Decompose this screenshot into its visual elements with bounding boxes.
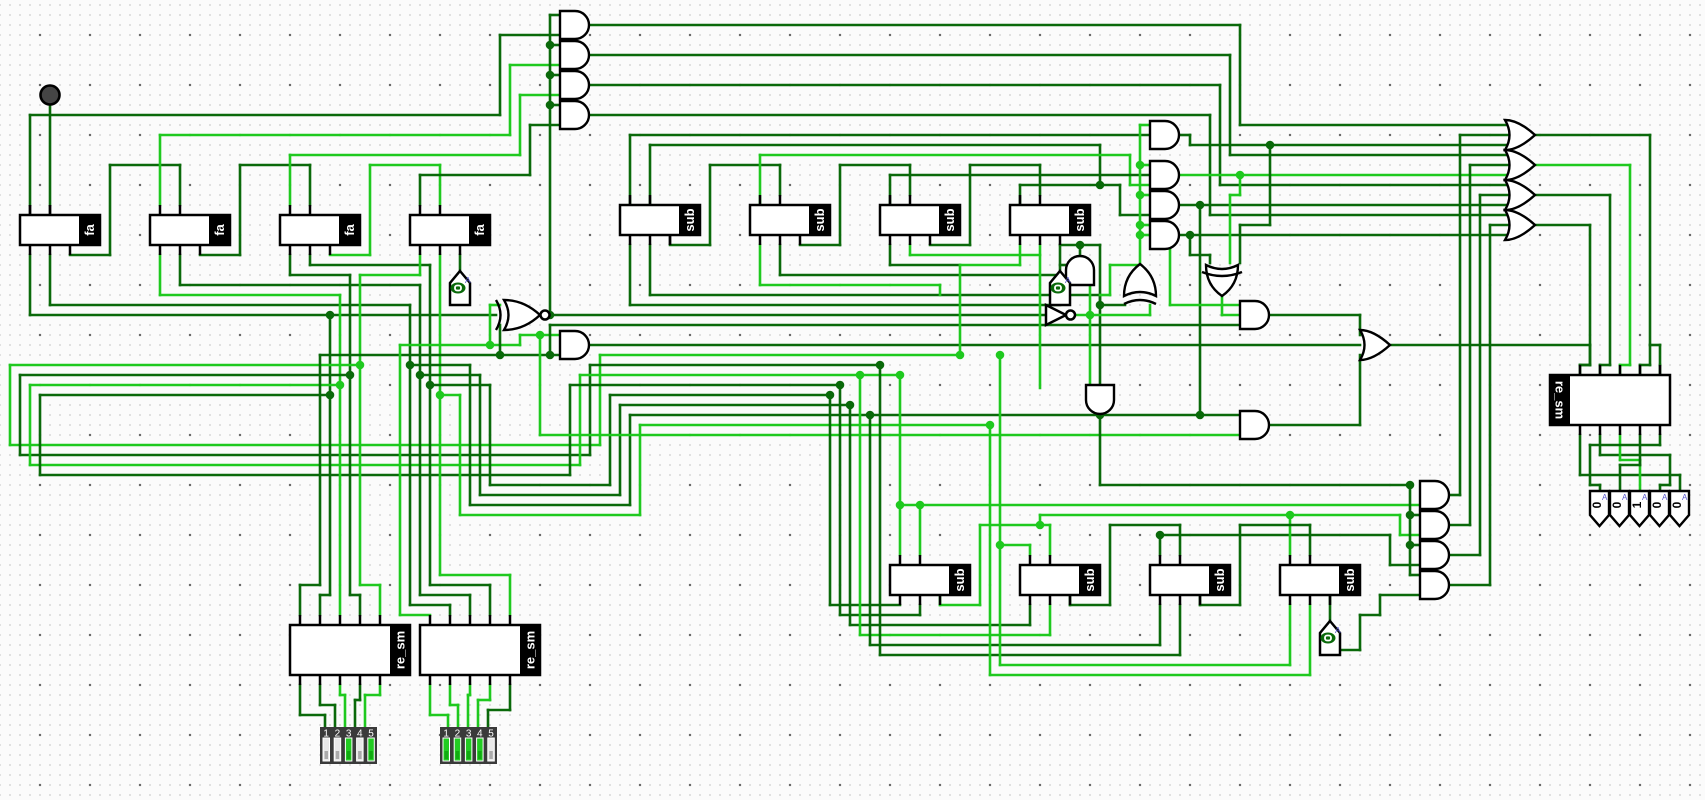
wire (779, 245, 782, 275)
wire junction (866, 411, 875, 420)
register re_sm U1 (290, 625, 410, 675)
wire (1199, 595, 1202, 605)
wire (329, 395, 332, 595)
wire (1140, 234, 1150, 237)
AND gate B1 (1150, 121, 1179, 149)
wire (29, 115, 32, 205)
input pin (41, 86, 60, 105)
wire (550, 314, 1045, 317)
wire (1060, 244, 1100, 247)
AND gate G4 (1420, 571, 1449, 599)
wire (429, 685, 432, 715)
wire (1180, 204, 1516, 207)
wire junction (1086, 311, 1095, 320)
wire (759, 245, 762, 285)
wire (359, 365, 362, 585)
wire (319, 685, 322, 705)
wire junction (1186, 231, 1195, 240)
wire (1089, 285, 1092, 385)
wire (939, 595, 942, 605)
wire (1199, 205, 1202, 415)
svg-text:0: 0 (1610, 501, 1624, 508)
svg-text:fa: fa (212, 223, 227, 235)
svg-text:A: A (1662, 493, 1668, 502)
svg-text:sub: sub (1072, 208, 1087, 231)
wire (869, 415, 872, 645)
wire (490, 304, 500, 307)
wire (1075, 314, 1150, 317)
wire (40, 394, 330, 397)
AND gate G1 (1420, 481, 1449, 509)
wire junction (1196, 411, 1205, 420)
wire (1270, 314, 1360, 317)
AND gate U5 (560, 331, 589, 359)
wire junction (896, 371, 905, 380)
wire (1039, 245, 1042, 388)
wire (1069, 595, 1072, 605)
wire (419, 175, 422, 205)
wire junction (1156, 531, 1165, 540)
svg-text:0: 0 (1670, 501, 1684, 508)
wire (1270, 424, 1360, 427)
wire (590, 24, 1240, 27)
wire junction (546, 351, 555, 360)
output pin out3 (1630, 491, 1649, 526)
constant 0 C1 (450, 271, 470, 305)
wire junction (496, 351, 505, 360)
constant 0 C2 (1050, 271, 1070, 305)
AND gate A4 (560, 101, 589, 129)
wire (1019, 185, 1022, 205)
wire (909, 245, 912, 255)
wire (179, 255, 182, 285)
wire (1659, 435, 1662, 445)
wire junction (1136, 231, 1145, 240)
wire junction (546, 311, 555, 320)
wire (759, 155, 762, 205)
AND gate B4 (1150, 221, 1179, 249)
wire (1180, 134, 1190, 137)
svg-text:re_sm: re_sm (393, 631, 408, 669)
wire (629, 245, 632, 305)
wire (499, 325, 502, 355)
full adder fa1 (20, 215, 100, 245)
wire (30, 384, 340, 387)
wire (1410, 514, 1420, 517)
XOR gate U13 (south) (1206, 265, 1238, 296)
wire (49, 255, 52, 305)
wire junction (1406, 511, 1415, 520)
wire (1409, 485, 1412, 575)
wire (879, 365, 882, 655)
wire (889, 245, 892, 265)
wire junction (916, 501, 925, 510)
AND gate U10 (1240, 301, 1269, 329)
wire (590, 114, 1210, 117)
wire (349, 375, 352, 595)
wire (670, 244, 710, 247)
wire (859, 375, 862, 635)
wire (1180, 234, 1516, 237)
AND gate G2 (1420, 511, 1449, 539)
wire (1140, 124, 1150, 127)
OR gate O1 (1505, 120, 1535, 150)
wire (549, 325, 552, 355)
wire (1269, 145, 1272, 225)
wire junction (536, 331, 545, 340)
LED display 2 (440, 727, 497, 764)
wire junction (416, 371, 425, 380)
subtractor sub8 (1280, 565, 1360, 595)
wire (1060, 264, 1070, 267)
wire (900, 504, 1420, 507)
wire (1221, 296, 1224, 315)
wire (489, 305, 492, 345)
wire (1619, 435, 1622, 460)
register re_sm U2 (420, 625, 540, 675)
output pin out4 (1650, 491, 1669, 526)
wire junction (1036, 521, 1045, 530)
wire (1649, 345, 1652, 365)
wire junction (1136, 161, 1145, 170)
svg-text:sub: sub (812, 208, 827, 231)
AND gate A3 (560, 71, 589, 99)
wire junction (546, 71, 555, 80)
svg-text:A: A (1642, 493, 1648, 502)
wire (289, 155, 292, 205)
wire (1579, 435, 1582, 475)
wire (889, 175, 892, 205)
svg-text:A: A (1602, 493, 1608, 502)
wire (550, 44, 560, 47)
wire (800, 244, 840, 247)
subtractor sub5 (890, 565, 970, 595)
wire (1536, 194, 1610, 197)
svg-text:fa: fa (472, 223, 487, 235)
wire (1180, 174, 1516, 177)
pin stubs (49, 205, 52, 215)
full adder fa3 (280, 215, 360, 245)
svg-text:sub: sub (952, 568, 967, 591)
wire (400, 344, 520, 347)
wire (1450, 494, 1460, 497)
wire (339, 685, 342, 695)
wire (439, 255, 442, 395)
OR gate O4 (1505, 210, 1535, 240)
output pin out2 (1610, 491, 1629, 526)
wire junction (1286, 511, 1295, 520)
svg-text:A: A (1065, 275, 1071, 285)
wire (289, 255, 292, 275)
wire (1140, 164, 1150, 167)
wire (550, 14, 560, 17)
svg-text:A: A (1622, 493, 1628, 502)
svg-text:sub: sub (1082, 568, 1097, 591)
wire junction (356, 361, 365, 370)
full adder fa2 (150, 215, 230, 245)
LED display 1 (320, 727, 377, 764)
svg-text:re_sm: re_sm (523, 631, 538, 669)
wire (1536, 134, 1650, 137)
wire (959, 265, 962, 355)
wire junction (826, 391, 835, 400)
wire (159, 135, 162, 205)
full adder fa4 (410, 215, 490, 245)
wire (10, 364, 360, 367)
wire junction (1096, 181, 1105, 190)
subtractor sub4 (1010, 205, 1090, 235)
AND gate U7 (south) (1086, 385, 1114, 414)
wire (399, 345, 402, 615)
wire (1450, 584, 1490, 587)
wire (459, 255, 462, 271)
wire (550, 324, 1240, 327)
AND gate B2 (1150, 161, 1179, 189)
wire (1536, 164, 1630, 167)
wire (930, 244, 970, 247)
wire (440, 394, 460, 397)
OR gate O3 (1505, 180, 1535, 210)
wire junction (996, 351, 1005, 360)
subtractor sub3 (880, 205, 960, 235)
AND gate G3 (1420, 541, 1449, 569)
wire (489, 685, 492, 700)
wire (960, 264, 1020, 267)
wire (29, 255, 32, 315)
wire (309, 255, 312, 265)
wire (330, 254, 370, 257)
wire (649, 245, 652, 295)
wire junction (1266, 141, 1275, 150)
wire (629, 135, 632, 205)
wire (379, 685, 382, 695)
wire junction (426, 381, 435, 390)
wire (439, 395, 442, 575)
output pin out1 (1590, 491, 1609, 526)
junction dots (546, 41, 555, 50)
wire junction (896, 501, 905, 510)
wire junction (836, 381, 845, 390)
wire (1450, 554, 1480, 557)
wire (1639, 435, 1642, 465)
wire (1139, 125, 1142, 265)
wire (1450, 524, 1470, 527)
wire (1589, 345, 1592, 365)
XOR gate U8 (north) (1124, 264, 1156, 296)
wire (1380, 594, 1420, 597)
wire (1100, 304, 1125, 307)
wire (1329, 595, 1332, 621)
svg-text:0: 0 (1650, 501, 1664, 508)
wire (1169, 250, 1172, 305)
AND gate A2 (560, 41, 589, 69)
wire (590, 84, 1220, 87)
wire (1159, 535, 1162, 555)
wire junction (1096, 411, 1105, 420)
svg-text:1: 1 (1630, 501, 1644, 508)
wire junction (996, 541, 1005, 550)
AND gate U6 (north) (1066, 256, 1094, 285)
wire junction (1406, 481, 1415, 490)
wire (999, 355, 1002, 665)
AND gate B3 (1150, 191, 1179, 219)
wire (410, 364, 470, 367)
wire (49, 105, 52, 205)
wire junction (1136, 191, 1145, 200)
wire (329, 315, 332, 395)
constant 0 C3 (1320, 621, 1340, 655)
wire junction (486, 341, 495, 350)
wire (989, 425, 992, 675)
wire (550, 104, 560, 107)
wire (409, 365, 412, 605)
wire (1079, 245, 1082, 255)
wire junction (1096, 301, 1105, 310)
wire junction (546, 41, 555, 50)
OR gate U12 (1360, 330, 1390, 360)
wire (320, 354, 560, 357)
wire (1000, 544, 1030, 547)
wire junction (346, 371, 355, 380)
wire (590, 344, 1360, 347)
wire junction (876, 361, 885, 370)
subtractor sub7 (1150, 565, 1230, 595)
wire junction (1136, 221, 1145, 230)
wire junction (1406, 541, 1415, 550)
wire junction (326, 311, 335, 320)
wire junction (956, 351, 965, 360)
wire (499, 35, 502, 115)
wire (839, 385, 842, 615)
svg-text:sub: sub (942, 208, 957, 231)
wire (899, 375, 902, 555)
wire junction (326, 391, 335, 400)
wire (339, 385, 342, 615)
wire (1100, 294, 1110, 297)
wire junction (436, 391, 445, 400)
wire (319, 355, 322, 585)
wire (549, 15, 552, 315)
NOT gate U9 (1046, 305, 1066, 325)
wire (200, 254, 240, 257)
wire junction (1196, 201, 1205, 210)
wire (1140, 224, 1150, 227)
wire (419, 375, 422, 595)
wire (649, 145, 652, 205)
wire (919, 505, 922, 555)
wire (539, 335, 542, 435)
wire (1160, 534, 1390, 537)
wire (1599, 435, 1602, 455)
svg-text:A: A (465, 275, 471, 285)
AND gate U11 (1240, 411, 1269, 439)
wire (1410, 544, 1420, 547)
wire (550, 74, 560, 77)
wire (1140, 194, 1150, 197)
svg-text:re_sm: re_sm (1553, 381, 1568, 419)
wire (359, 685, 362, 700)
wire (1039, 515, 1042, 525)
subtractor sub1 (620, 205, 700, 235)
wire (449, 685, 452, 705)
wire junction (1076, 241, 1085, 250)
wire (849, 405, 852, 625)
OR gate O2 (1505, 150, 1535, 180)
wire (590, 54, 1230, 57)
wire (420, 374, 480, 377)
svg-text:0: 0 (1590, 501, 1604, 508)
wire (1650, 344, 1660, 347)
svg-text:sub: sub (1342, 568, 1357, 591)
AND gate A1 (560, 11, 589, 39)
wire (1536, 224, 1590, 227)
wire (1189, 235, 1192, 255)
wire (430, 384, 490, 387)
wire (509, 685, 512, 710)
wire (1390, 344, 1590, 347)
wire (1289, 515, 1292, 555)
register re_sm U3 (1550, 375, 1670, 425)
wire (429, 385, 432, 585)
subtractor sub2 (750, 205, 830, 235)
wire (419, 255, 422, 275)
wire junction (406, 361, 415, 370)
wire junction (546, 101, 555, 110)
XNOR gate U4 (504, 300, 540, 330)
output pin out5 (1670, 491, 1689, 526)
svg-text:sub: sub (1212, 568, 1227, 591)
wire (469, 685, 472, 695)
wire junction (856, 371, 865, 380)
svg-text:A: A (1335, 625, 1341, 635)
wire (829, 395, 832, 605)
wire junction (986, 421, 995, 430)
wire (30, 114, 500, 117)
wire (299, 685, 302, 715)
wire (159, 255, 162, 295)
wire (1239, 175, 1242, 195)
svg-text:fa: fa (342, 223, 357, 235)
wire (20, 374, 350, 377)
svg-text:A: A (1682, 493, 1688, 502)
subtractor sub6 (1020, 565, 1100, 595)
wire junction (846, 401, 855, 410)
wire (70, 254, 110, 257)
wires (49, 105, 52, 205)
wire (1149, 305, 1152, 315)
svg-text:sub: sub (682, 208, 697, 231)
svg-text:fa: fa (82, 223, 97, 235)
wire junction (1236, 171, 1245, 180)
wire junction (336, 381, 345, 390)
wire (1099, 415, 1102, 485)
